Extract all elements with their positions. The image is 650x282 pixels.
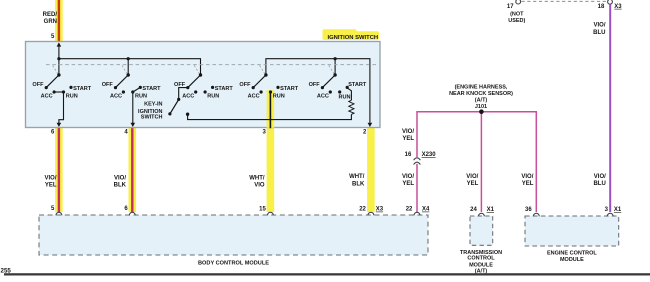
svg-text:36: 36 (525, 207, 532, 213)
switch pole 1 contact ACC (53, 90, 56, 93)
svg-text:X3: X3 (614, 4, 622, 10)
switch pole 5 contact ACC (329, 90, 332, 93)
svg-text:VIO/: VIO/ (466, 174, 478, 180)
switch pole 5 contact START (346, 86, 349, 89)
svg-text:VIO/: VIO/ (593, 23, 605, 29)
wire VIO/YEL J101 splice network (417, 112, 536, 212)
switch pole 2 pivot (122, 65, 127, 73)
svg-text:16: 16 (405, 152, 412, 158)
svg-text:VIO: VIO (254, 183, 265, 189)
svg-text:BLU: BLU (593, 181, 605, 187)
switch pole 3 contact ACC (194, 90, 197, 93)
wire VIO/BLK ignition pin 4 to BCM pin 6 (129, 127, 137, 212)
wire bus feeding switches 4-5 and pin 2 (266, 59, 370, 123)
svg-text:MODULE: MODULE (469, 262, 493, 268)
svg-text:ACC: ACC (248, 93, 260, 99)
svg-text:X1: X1 (487, 207, 495, 213)
svg-text:NEAR KNOCK SENSOR): NEAR KNOCK SENSOR) (449, 91, 513, 97)
switch pole 3 pivot (194, 65, 199, 73)
footer rule (4, 273, 650, 275)
engine control module box (525, 216, 619, 246)
switch pole 2 blade (OFF position) (116, 75, 129, 88)
key-in ignition switch contact (186, 113, 189, 116)
wire bus from pin 5 feeding switches 1-3 (59, 59, 201, 75)
wire VIO/YEL ignition pin 6 to BCM pin 5 (55, 127, 63, 212)
wire WHT/BLK ignition pin 2 to BCM pin 22 X3 (367, 127, 375, 212)
switch pole 4 contact START (276, 86, 279, 89)
switch pole 1 contact START (69, 86, 72, 89)
wire key-in contact to resistor (188, 114, 352, 119)
wire switch1 RUN to pin 6 (59, 92, 64, 123)
key-in ignition switch blade (open) (170, 99, 179, 114)
svg-text:START: START (142, 86, 161, 92)
switch pole 3 contact RUN (204, 90, 207, 93)
svg-text:VIO/: VIO/ (594, 174, 606, 180)
junction dot bus at switch 2 (127, 57, 130, 60)
svg-text:VIO/: VIO/ (402, 129, 414, 135)
svg-text:YEL: YEL (402, 181, 414, 187)
svg-text:BODY CONTROL MODULE: BODY CONTROL MODULE (198, 260, 269, 266)
switch pole 5 pivot (329, 65, 334, 73)
mechanical linkage dashed rail (46, 64, 377, 66)
connector arc ECM pin 3 (607, 213, 613, 216)
label IGNITION SWITCH (yellow highlight) (323, 31, 380, 40)
svg-text:ACC: ACC (317, 93, 329, 99)
svg-text:(A/T): (A/T) (475, 98, 488, 104)
svg-text:CONTROL: CONTROL (467, 255, 495, 261)
svg-text:WHT/: WHT/ (249, 175, 265, 181)
svg-text:IGNITION SWITCH: IGNITION SWITCH (328, 35, 379, 41)
svg-text:(NOT: (NOT (510, 11, 524, 17)
svg-text:ACC: ACC (110, 93, 122, 99)
wire switch3 OFF contact to key-in switch pivot (179, 88, 188, 100)
connector circle pin 18 X3 (608, 0, 613, 4)
svg-text:OFF: OFF (102, 82, 114, 88)
svg-text:22: 22 (406, 207, 413, 213)
wire RED/GRN battery feed to ignition switch pin 5 (55, 0, 63, 42)
svg-text:YEL: YEL (402, 136, 414, 142)
switch pole 4 contact RUN (269, 90, 272, 93)
connector arc ECM pin 36 (533, 213, 539, 216)
svg-text:X4: X4 (422, 207, 430, 213)
connector arc BCM pin 22 X3 (368, 212, 374, 215)
svg-text:RUN: RUN (135, 93, 147, 99)
key-in ignition switch pivot (177, 98, 180, 101)
svg-text:WHT/: WHT/ (349, 174, 365, 180)
svg-text:START: START (73, 86, 92, 92)
connector arc BCM pin 22 X4 (414, 212, 420, 215)
svg-text:X230: X230 (422, 152, 437, 158)
inline connector X230 (414, 158, 421, 160)
connector arc BCM pin 5 (56, 212, 62, 215)
svg-text:18: 18 (598, 4, 605, 10)
svg-text:GRN: GRN (44, 19, 57, 25)
switch pole 1 blade (OFF position) (46, 75, 59, 88)
wire sw4 RUN contact to pin 3 (black core on yellow) (267, 90, 275, 128)
svg-text:15: 15 (259, 207, 266, 213)
svg-text:YEL: YEL (45, 183, 57, 189)
svg-text:22: 22 (359, 207, 366, 213)
switch pole 1 pivot (53, 65, 58, 73)
switch pole 2 contact ACC (122, 90, 125, 93)
svg-text:X1: X1 (614, 207, 622, 213)
wire WHT/VIO ignition pin 3 to BCM pin 15 (267, 90, 275, 212)
svg-text:ACC: ACC (182, 93, 194, 99)
svg-text:VIO/: VIO/ (44, 175, 56, 181)
connector arc TCM pin 24 (479, 213, 485, 216)
connector arc BCM pin 6 (129, 212, 135, 215)
svg-text:VIO/: VIO/ (402, 174, 414, 180)
svg-text:(ENGINE HARNESS,: (ENGINE HARNESS, (455, 85, 508, 91)
svg-text:SWITCH: SWITCH (141, 115, 163, 121)
svg-text:RED/: RED/ (43, 12, 58, 18)
switch pole 2 contact RUN (131, 90, 134, 93)
junction dot bus at switch 1 (57, 57, 60, 60)
svg-text:ACC: ACC (41, 93, 53, 99)
node pin5 entry arrow (58, 45, 60, 59)
svg-text:RUN: RUN (273, 93, 285, 99)
splice J101 (479, 109, 484, 114)
svg-text:USED): USED) (508, 18, 525, 24)
switch pole 4 pivot (260, 65, 265, 73)
svg-text:OFF: OFF (309, 82, 321, 88)
switch pole 5 blade (OFF position) (322, 75, 335, 88)
svg-text:YEL: YEL (522, 181, 534, 187)
svg-text:MODULE: MODULE (560, 257, 584, 263)
node pin2 exit arrow (368, 123, 373, 127)
switch pole 4 contact ACC (260, 90, 263, 93)
svg-text:VIO/: VIO/ (521, 174, 533, 180)
svg-text:START: START (348, 82, 367, 88)
svg-text:BLU: BLU (593, 30, 605, 36)
svg-text:BLK: BLK (114, 183, 127, 189)
svg-text:OFF: OFF (239, 82, 251, 88)
connector arc BCM pin 15 (268, 212, 274, 215)
svg-text:RUN: RUN (207, 93, 219, 99)
switch pole 3 blade (OFF position) (188, 75, 201, 88)
transmission control module box (470, 216, 493, 245)
svg-text:START: START (215, 86, 234, 92)
svg-text:J101: J101 (475, 104, 487, 110)
connector circle pin 17 (not used) (516, 0, 521, 4)
svg-text:24: 24 (470, 207, 477, 213)
svg-text:ENGINE CONTROL: ENGINE CONTROL (547, 250, 597, 256)
wire VIO/BLU pin 18 X3 to ECM pin 3 X1 (609, 4, 611, 212)
dashed link pin 17 to pin 18 (522, 0, 607, 2)
switch pole 5 contact RUN (338, 90, 341, 93)
svg-text:X3: X3 (376, 207, 384, 213)
body control module box (39, 215, 428, 255)
svg-text:BLK: BLK (352, 181, 365, 187)
switch pole 2 contact START (139, 86, 142, 89)
junction dot bus at switch 5 (334, 57, 337, 60)
resistor (key-in chime) (347, 87, 352, 100)
switch pole 3 contact START (211, 86, 214, 89)
svg-text:RUN: RUN (339, 94, 351, 100)
svg-text:START: START (280, 86, 299, 92)
svg-text:OFF: OFF (32, 82, 44, 88)
ignition switch box (26, 42, 381, 128)
svg-text:YEL: YEL (467, 181, 479, 187)
switch pole 4 blade (OFF position) (253, 75, 266, 88)
svg-text:VIO/: VIO/ (114, 175, 126, 181)
wire switch2 RUN to pin 4 (132, 92, 134, 123)
jumper RUN-START switch 2 (133, 87, 141, 92)
switch pole 1 contact RUN (62, 90, 65, 93)
svg-text:RUN: RUN (66, 93, 78, 99)
svg-text:KEY-IN: KEY-IN (144, 101, 162, 107)
jumper ACC-RUN switch 1 (54, 91, 63, 93)
svg-text:17: 17 (507, 4, 514, 10)
